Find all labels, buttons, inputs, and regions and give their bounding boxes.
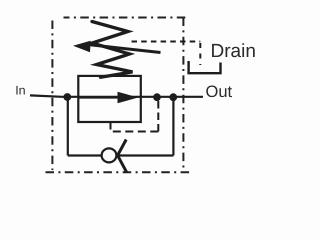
pilot sensing line from valve bottom to outlet (dashed) <box>111 100 159 132</box>
check valve seat <box>118 140 127 173</box>
svg-text:In: In <box>15 84 25 98</box>
check valve CV1 (ball) <box>102 148 117 162</box>
main line In to Out <box>30 95 203 96</box>
drain pilot line (dashed) <box>132 42 201 66</box>
bypass line bottom left segment <box>68 154 102 156</box>
adjustment arrow through spring <box>73 41 161 53</box>
svg-text:Drain: Drain <box>211 41 256 62</box>
svg-text:Out: Out <box>206 83 233 101</box>
junction dot node C (bypass return) <box>169 93 177 101</box>
flow arrow inside valve <box>78 92 138 104</box>
valve envelope U1 <box>78 76 141 122</box>
bypass line right riser <box>172 98 174 156</box>
bypass line bottom right segment <box>117 154 173 156</box>
spring <box>92 22 133 78</box>
enclosure boundary (dash-dot box) <box>46 18 194 173</box>
tank / reservoir symbol (Drain) <box>189 61 221 73</box>
bypass line left riser <box>67 97 69 156</box>
junction dot node B (pilot tap) <box>153 93 161 101</box>
junction dot node A (inlet branch) <box>63 93 71 101</box>
